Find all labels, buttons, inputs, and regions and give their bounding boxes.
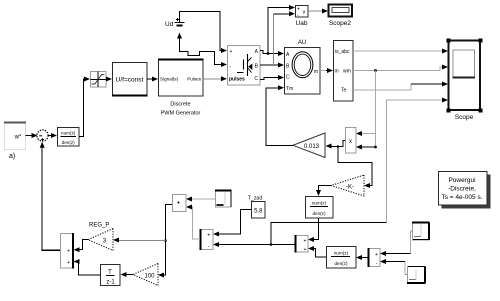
svg-text:v: v — [303, 10, 306, 16]
svg-text:num(z): num(z) — [334, 251, 349, 256]
junction node on phase A — [267, 52, 270, 55]
svg-text:PWM Generator: PWM Generator — [161, 111, 201, 117]
svg-text:C: C — [254, 76, 258, 82]
wire branch to gain -K- — [338, 147, 372, 189]
svg-text:+: + — [375, 252, 378, 258]
junction node wm2 — [374, 146, 377, 149]
mid sum block — [201, 229, 214, 250]
wire phase A inverter to machine — [260, 51, 284, 57]
powergui block shadow — [442, 175, 491, 209]
wire tap phase A to Uab + — [268, 5, 295, 54]
wire T z-1 out to REG sum lower — [74, 259, 101, 275]
svg-text:den(z): den(z) — [334, 261, 347, 266]
svg-text:x: x — [349, 139, 352, 145]
wire saturation to U/f — [106, 77, 112, 82]
wire branch to gain 3 — [113, 238, 166, 243]
step source upper — [412, 223, 430, 241]
svg-text:C: C — [286, 75, 290, 81]
wire sum2 out to mid sum minus — [213, 242, 295, 247]
wire dot block out down the feedback column — [158, 205, 172, 278]
svg-text:T: T — [108, 269, 112, 275]
block U/f=const — [112, 63, 148, 96]
svg-text:+: + — [230, 49, 233, 55]
REG sum block — [61, 233, 74, 269]
svg-text:num(z): num(z) — [61, 131, 76, 136]
svg-text:T_zad: T_zad — [248, 196, 263, 202]
svg-text:Scope2: Scope2 — [329, 20, 351, 27]
svg-text:Powergui: Powergui — [448, 177, 475, 184]
svg-text:w*: w* — [14, 135, 22, 141]
svg-text:0.013: 0.013 — [304, 144, 320, 150]
svg-text:Pulses: Pulses — [187, 77, 201, 82]
svg-text:Signal(s): Signal(s) — [160, 77, 179, 82]
product block x — [346, 128, 357, 154]
block Discrete PWM Generator — [158, 60, 204, 117]
wire w* to sum — [26, 133, 38, 138]
gain 0.013 — [293, 133, 325, 158]
wire PWM pulses to inverter — [203, 76, 227, 81]
wire is_abc to scope input1 — [353, 49, 448, 54]
wire sum3 out to filter3 — [356, 255, 368, 260]
svg-text:5.8: 5.8 — [254, 209, 263, 215]
wire step enable to dot block upper input — [186, 197, 215, 202]
wire REG sum out up to sum S1 — [40, 142, 60, 251]
saturation block — [91, 72, 107, 88]
svg-text:-K-: -K- — [346, 184, 354, 190]
wire step lower to sum3 - — [380, 259, 407, 275]
svg-text:is_abc: is_abc — [335, 49, 350, 55]
discrete filter num(z)/den(z) lower — [327, 247, 357, 269]
junction node wm — [374, 69, 377, 72]
wire feedback to scope input4 — [387, 98, 449, 223]
wire wm to scope input2 — [353, 65, 448, 71]
wire gain 0.013 to machine Tm — [266, 85, 293, 145]
voltage measurement Uab — [296, 6, 309, 28]
wire gain 100 to T z-1 — [121, 272, 134, 277]
wire filter up to saturation — [79, 77, 90, 137]
wire step upper to sum3 + — [380, 231, 412, 256]
wire Te to scope input3 — [353, 82, 448, 91]
step source lower — [407, 267, 426, 284]
dot product block — [173, 195, 187, 212]
gain REG_P value 3 (dotted) — [88, 223, 113, 251]
wire mid sum out to dot block lower input — [186, 205, 200, 240]
svg-text:100: 100 — [144, 273, 155, 279]
wire phase C inverter to machine — [260, 75, 284, 80]
constant T_zad — [248, 196, 265, 219]
asynchronous machine AU — [285, 40, 321, 94]
wire Ud plus to inverter + — [180, 12, 228, 54]
wire T_zad to mid sum plus — [213, 210, 251, 237]
svg-text:pulses: pulses — [229, 77, 245, 83]
svg-text:Tm: Tm — [286, 86, 293, 92]
svg-text:Ud: Ud — [165, 21, 174, 28]
wire filter2 down to sum2 top input — [308, 218, 319, 242]
wire Ud minus loop to inverter - — [177, 33, 227, 68]
svg-text:+: + — [207, 233, 210, 239]
svg-text:z-1: z-1 — [106, 280, 115, 286]
discrete integrator T/z-1 — [101, 265, 121, 286]
svg-text:m: m — [314, 69, 318, 75]
svg-text:U/f=const: U/f=const — [116, 76, 144, 83]
svg-text:Discrete: Discrete — [170, 102, 190, 108]
IGBT icon inside inverter — [247, 54, 249, 76]
wire gain 3 to REG sum — [74, 240, 89, 253]
scope Scope2 — [329, 5, 353, 28]
svg-text:+: + — [304, 238, 307, 244]
wire wm branch down to product — [356, 71, 376, 148]
wire -K- to filter2 — [316, 186, 331, 197]
wire tap phase B to Uab - — [274, 11, 296, 65]
sum2 block — [296, 235, 309, 253]
svg-text:Te: Te — [341, 88, 347, 94]
sum junction S1 (dotted circle) — [37, 130, 48, 141]
svg-text:den(z): den(z) — [62, 140, 75, 145]
wire phase B inverter to machine — [260, 63, 284, 68]
wire feedback up and right — [271, 222, 387, 244]
wire product out to gain 0.013 — [326, 141, 346, 149]
wire machine m to measurement — [320, 68, 333, 73]
svg-text:+: + — [304, 247, 307, 253]
svg-text:Ts = 4e-005 s.: Ts = 4e-005 s. — [441, 194, 482, 201]
wire wm to product lower input — [356, 145, 376, 150]
scope Scope — [447, 39, 483, 122]
universal bridge inverter — [228, 46, 261, 86]
svg-text:AU: AU — [298, 40, 306, 46]
wire Uab to Scope2 — [308, 9, 328, 14]
step source enable — [215, 191, 232, 208]
svg-text:+: + — [67, 248, 70, 254]
gain 100 (dotted) — [133, 264, 158, 286]
gain -K- (dotted) — [331, 175, 364, 196]
junction node regp — [164, 239, 167, 242]
wire U/f to PWM — [147, 77, 158, 82]
source block w* — [4, 123, 26, 150]
machines measurement demux — [334, 41, 354, 102]
svg-text:+: + — [67, 260, 70, 266]
discrete filter num(z)/den(z) speed — [58, 128, 80, 147]
junction node product out — [337, 145, 339, 147]
junction node feedback — [270, 243, 273, 246]
svg-text:wm: wm — [343, 69, 351, 75]
svg-text:a): a) — [9, 153, 15, 160]
svg-text:den(z): den(z) — [312, 211, 325, 216]
sum3 block — [369, 248, 381, 267]
svg-text:-Discrete,: -Discrete, — [448, 186, 476, 193]
wire filter3 out to sum2 bottom input — [308, 246, 326, 257]
powergui block — [439, 172, 488, 206]
discrete filter num(z)/den(z) torque — [306, 197, 334, 219]
svg-text:Uab: Uab — [296, 20, 308, 27]
svg-text:num(z): num(z) — [312, 201, 327, 206]
wire sum to filter — [49, 133, 58, 138]
svg-text:m: m — [335, 69, 339, 75]
svg-text:Scope: Scope — [455, 114, 474, 121]
svg-text:REG_P: REG_P — [89, 223, 109, 229]
DC source Ud — [165, 18, 185, 28]
